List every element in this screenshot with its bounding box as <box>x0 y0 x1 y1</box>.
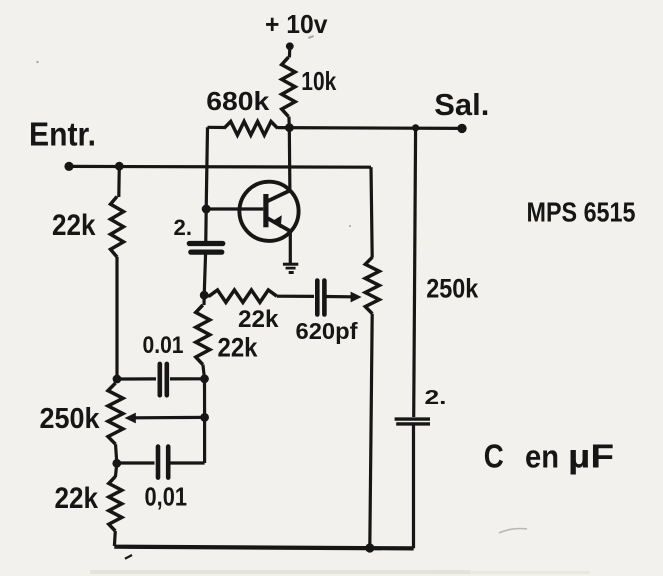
svg-text:en: en <box>525 439 559 475</box>
svg-text:0.01: 0.01 <box>143 332 184 359</box>
svg-text:Sal.: Sal. <box>434 87 489 122</box>
svg-text:MPS 6515: MPS 6515 <box>527 197 636 228</box>
svg-text:22k: 22k <box>55 482 99 515</box>
svg-text:22k: 22k <box>218 333 259 363</box>
svg-text:620pf: 620pf <box>296 318 358 344</box>
svg-text:µF: µF <box>568 438 614 475</box>
svg-text:2.: 2. <box>425 387 447 409</box>
svg-text:+ 10v: + 10v <box>265 9 328 39</box>
svg-text:0,01: 0,01 <box>145 482 188 512</box>
svg-text:250k: 250k <box>40 403 101 435</box>
svg-text:22k: 22k <box>238 306 279 333</box>
svg-text:10k: 10k <box>301 66 336 96</box>
svg-text:C: C <box>484 438 504 475</box>
svg-text:680k: 680k <box>206 86 270 116</box>
svg-text:250k: 250k <box>426 274 479 304</box>
svg-text:22k: 22k <box>52 209 96 242</box>
svg-text:Entr.: Entr. <box>29 116 96 153</box>
svg-text:2.: 2. <box>174 215 193 240</box>
